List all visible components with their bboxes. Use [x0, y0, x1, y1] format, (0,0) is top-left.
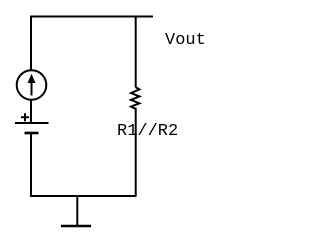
battery V1 positive plate (long): [15, 122, 49, 124]
current source arrow (pointing up): [28, 74, 36, 96]
wire source to battery: [30, 100, 32, 123]
resistor R1//R2 zigzag: [131, 87, 139, 109]
wire battery to bottom rail: [30, 133, 32, 196]
ground bar: [61, 225, 91, 227]
wire right vertical upper (Vout to resistor): [135, 16, 137, 88]
wire right vertical lower (resistor to bottom rail): [135, 108, 137, 196]
ground stub wire: [76, 196, 78, 226]
label Vout: [165, 31, 206, 50]
label R1//R2: [117, 122, 178, 141]
battery plus sign: [21, 113, 29, 121]
wire bottom horizontal rail: [30, 195, 137, 197]
current source I1 circle: [17, 70, 47, 100]
wire top horizontal (node Vout): [30, 16, 153, 18]
battery negative plate (short): [25, 132, 39, 135]
wire left vertical (source top lead): [30, 16, 32, 71]
